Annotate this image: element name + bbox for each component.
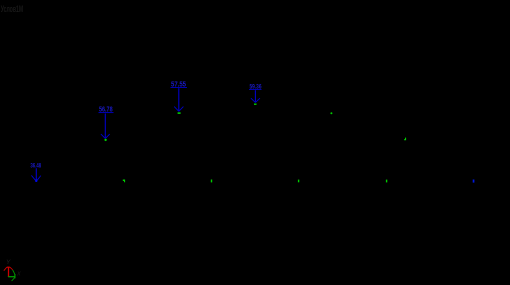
leader C shaft [178, 88, 180, 111]
UCS hypotenuse segment (green) [13, 270, 15, 274]
UCS Y axis right wing (red) [10, 267, 13, 270]
leader A tip point (blue) [35, 179, 37, 182]
svg-text:Y: Y [6, 259, 11, 266]
UCS Y axis shaft (red) [8, 267, 10, 277]
leader C left wing [174, 107, 179, 112]
leader C underline [171, 86, 188, 88]
UCS lower diagonal (green) [12, 277, 15, 281]
point marker (green blob, row y=180, x=123) [123, 180, 125, 183]
leader D left wing [251, 98, 256, 102]
point marker D (green bar) [254, 104, 257, 105]
leader C right wing [179, 107, 184, 112]
point marker (blue bar, row y=180, x=473) [473, 180, 475, 183]
leader D underline [249, 88, 262, 90]
leader A right wing [36, 176, 41, 182]
leader B right wing [105, 134, 109, 138]
point marker (green blob, x=405 y=139) [404, 138, 406, 141]
leader D shaft [254, 90, 256, 102]
leader B left wing [101, 134, 105, 138]
point marker C (green bar) [178, 112, 181, 114]
leader B underline [99, 112, 114, 114]
point marker (green bar, row y=180, x=386) [386, 180, 387, 183]
point marker (green bar, row y=180, x=298) [298, 180, 299, 183]
leader B shaft [104, 114, 106, 139]
point marker B (green) [104, 139, 106, 141]
svg-text:X: X [16, 272, 21, 278]
leader A shaft [35, 168, 37, 181]
UCS Y axis tip crossbar (red) [7, 266, 10, 268]
point marker (green bar, row y=180, x=211) [211, 180, 212, 183]
leader D right wing [255, 98, 260, 102]
UCS X axis tip crossbar (green) [14, 274, 16, 278]
UCS X axis shaft (green) [8, 276, 15, 278]
point marker (green dot, x=331 y=113) [330, 112, 332, 114]
UCS Y axis left wing (red) [4, 267, 7, 271]
leader A left wing [31, 175, 36, 181]
svg-text:Услов1М: Услов1М [1, 4, 24, 14]
